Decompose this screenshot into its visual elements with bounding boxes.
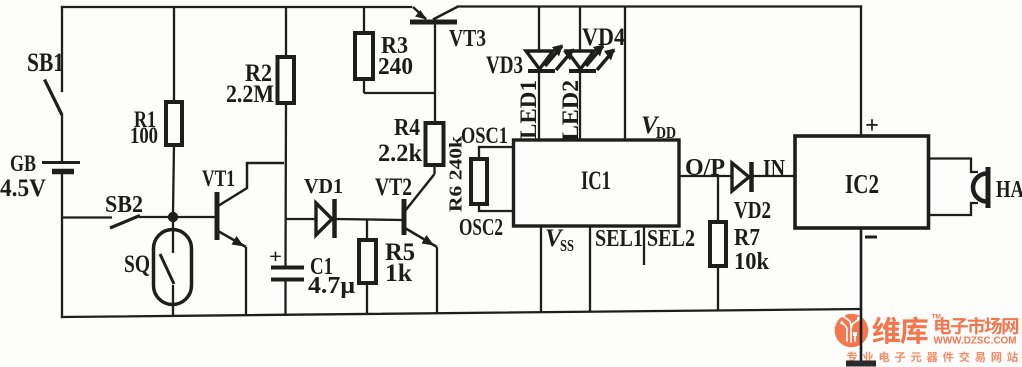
wire IC2 ground	[860, 228, 863, 362]
svg-text:VT2: VT2	[375, 174, 412, 201]
switch SB2	[62, 216, 171, 229]
wire VSS pin	[540, 226, 542, 312]
switch SB1	[45, 80, 63, 116]
svg-text:HA: HA	[996, 177, 1022, 203]
svg-text:+: +	[269, 246, 282, 268]
svg-text:VD1: VD1	[304, 174, 343, 198]
svg-text:SEL2: SEL2	[647, 226, 695, 252]
label minus	[865, 236, 877, 239]
resistor R5	[359, 220, 376, 315]
watermark logo circle	[835, 314, 869, 348]
svg-text:VD2: VD2	[734, 198, 771, 224]
svg-text:SB2: SB2	[105, 192, 143, 218]
svg-text:SS: SS	[560, 236, 574, 255]
svg-text:1k: 1k	[385, 260, 412, 287]
svg-text:TM: TM	[932, 314, 941, 321]
resistor R2	[278, 7, 295, 267]
wire OSC2	[479, 204, 514, 211]
resistor R6	[471, 159, 487, 204]
wire SEL1 pin	[589, 226, 591, 312]
svg-text:VT1: VT1	[202, 166, 235, 191]
svg-text:LED2: LED2	[558, 80, 583, 141]
resistor R3	[355, 7, 436, 93]
svg-text:10k: 10k	[734, 249, 770, 275]
svg-text:240: 240	[378, 54, 413, 80]
svg-text:2.2k: 2.2k	[378, 140, 422, 167]
resistor R1	[166, 7, 182, 213]
wire left edge bottom	[61, 115, 63, 162]
battery GB	[42, 161, 80, 164]
svg-text:LED1: LED1	[516, 80, 541, 139]
svg-text:OSC2: OSC2	[459, 215, 503, 241]
svg-text:VD3: VD3	[486, 52, 523, 79]
svg-text:R4: R4	[394, 115, 420, 141]
svg-text:DD: DD	[656, 123, 676, 142]
wire O/P	[679, 175, 732, 177]
svg-text:R7: R7	[734, 225, 760, 251]
svg-text:GB: GB	[10, 151, 36, 176]
svg-text:2.2M: 2.2M	[226, 81, 274, 108]
svg-text:4.7μ: 4.7μ	[308, 273, 355, 299]
wire top rail right	[458, 5, 861, 7]
svg-text:100: 100	[130, 123, 158, 148]
tilt switch SQ	[154, 222, 192, 316]
watermark text 电子市场网	[935, 317, 951, 334]
speaker HA	[928, 159, 988, 216]
capacitor C1	[271, 268, 304, 317]
svg-text:IN: IN	[763, 156, 786, 182]
transistor VT3	[410, 7, 458, 124]
node junction dot	[168, 212, 178, 222]
svg-text:SB1: SB1	[27, 48, 64, 77]
wire OSC1	[479, 147, 514, 159]
wire right edge down to IC2 plus	[860, 7, 862, 137]
svg-text:4.5V: 4.5V	[0, 175, 46, 202]
diode VD2	[732, 162, 795, 192]
svg-text:SEL1: SEL1	[595, 226, 643, 252]
svg-text:IC2: IC2	[845, 169, 879, 199]
transistor VT1	[178, 163, 284, 316]
wire top rail left	[62, 6, 411, 8]
svg-text:OSC1: OSC1	[461, 123, 508, 148]
diode VD1	[286, 199, 403, 238]
IC IC2	[795, 136, 929, 228]
IC IC1	[514, 140, 680, 226]
watermark slogan 专业电子元器件交易网站	[847, 351, 857, 362]
wire SEL2 stub	[643, 226, 645, 265]
wire left edge top	[61, 7, 63, 91]
wire bottom rail	[62, 309, 861, 317]
svg-text:VT3: VT3	[449, 26, 486, 52]
LED VD4	[567, 7, 614, 140]
svg-text:+: +	[865, 113, 879, 139]
svg-text:IC1: IC1	[581, 166, 611, 195]
resistor R7	[710, 176, 726, 310]
svg-text:SQ: SQ	[124, 251, 150, 278]
transistor VT2	[404, 174, 437, 314]
ground	[846, 361, 876, 367]
watermark text 维库	[872, 317, 899, 344]
svg-text:WWW.DZSC.COM: WWW.DZSC.COM	[934, 335, 1017, 347]
resistor R4	[426, 123, 444, 174]
wire VDD pin	[624, 7, 626, 141]
LED VD3	[526, 7, 573, 140]
svg-text:VD4: VD4	[582, 24, 625, 51]
